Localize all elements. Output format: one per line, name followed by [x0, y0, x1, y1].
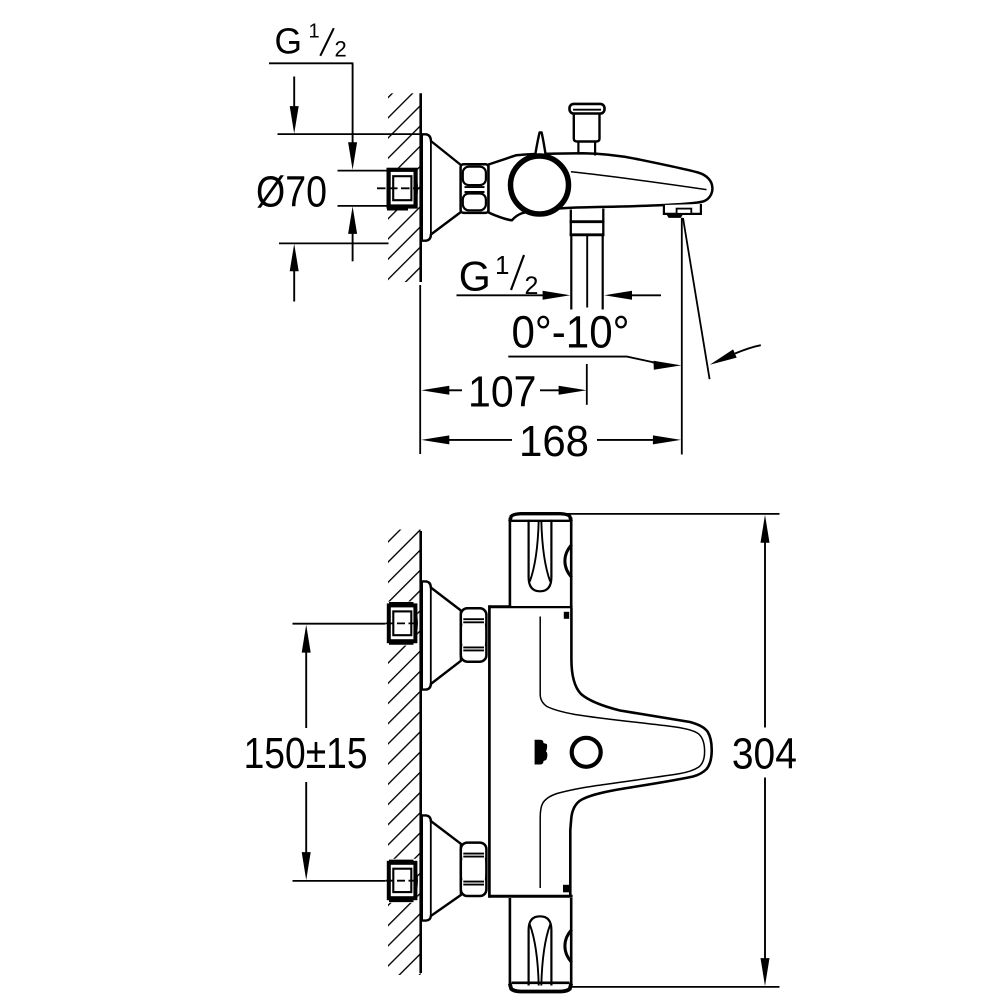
svg-text:1: 1: [309, 21, 320, 43]
svg-text:107: 107: [468, 367, 537, 416]
diverter knob body (top view): [574, 114, 600, 142]
lever pointer spike (top view): [535, 132, 546, 158]
upper knob cylinder (bottom view): [510, 514, 571, 606]
curved arrow at swivel line: [735, 345, 761, 353]
wall surface line (top view): [419, 93, 422, 282]
upper knob side dimple (bottom view): [565, 545, 572, 578]
upper escutcheon (bottom view): [422, 581, 461, 689]
centerline (top view union): [377, 187, 421, 189]
body bottom edge (bottom view): [489, 895, 572, 898]
upper knob grip (bottom view): [529, 520, 552, 592]
body left edge (bottom view): [488, 605, 491, 897]
diverter stem (top view): [577, 141, 579, 155]
svg-text:1: 1: [495, 250, 509, 280]
upper hex nut (bottom view): [461, 608, 487, 661]
swivel range lines: [681, 218, 683, 455]
svg-text:304: 304: [732, 729, 797, 778]
wall extension line (below top view): [419, 285, 421, 454]
label G 1/2 (top left): [269, 20, 353, 63]
304 extension lines: [556, 513, 780, 515]
shower outlet pipe G1/2 (top view): [570, 236, 572, 310]
Ø70 up arrow: [290, 244, 299, 272]
spout outlet lip (black): [666, 214, 683, 218]
centerline upper (bottom view): [386, 622, 422, 624]
0-10 leader with arrow: [508, 357, 658, 364]
front circle (bottom view): [572, 738, 601, 767]
svg-text:0°-10°: 0°-10°: [512, 306, 630, 357]
lower escutcheon (bottom view): [422, 815, 461, 920]
lower hex nut (bottom view): [461, 843, 487, 896]
wall surface line (bottom view): [419, 531, 422, 973]
body + spout silhouette fill (bottom view): [489, 607, 711, 897]
G1/2 extension lines (top view): [338, 170, 387, 172]
107 dimension: [586, 364, 588, 405]
escutcheon plate edge (top view): [430, 140, 432, 236]
small tick bottom (bottom view): [563, 885, 569, 893]
small tick top (bottom view): [564, 612, 569, 619]
shower outlet collar (top view): [570, 210, 572, 236]
label G 1/2 (middle): [459, 250, 539, 300]
150±15 extension lines: [293, 623, 386, 625]
black D mark (bottom view): [535, 740, 548, 765]
150±15 dimension line + arrows: [302, 625, 311, 653]
svg-text:168: 168: [519, 417, 589, 466]
G1/2 dim arrows at shower pipe: [457, 294, 546, 296]
svg-text:150±15: 150±15: [244, 729, 368, 778]
upper union square (bottom view): [387, 602, 418, 646]
Ø70 down arrow: [293, 77, 295, 109]
wall hatching (top view): [388, 93, 421, 282]
lower knob cylinder (bottom view): [510, 898, 571, 992]
diverter knob cap (top view): [570, 104, 605, 114]
svg-text:2: 2: [335, 37, 347, 62]
lower knob grip (bottom view): [529, 916, 552, 985]
spout outlet fitting (top view): [664, 204, 701, 214]
Ø70 extension lines: [278, 133, 422, 135]
lower union square (bottom view): [387, 859, 418, 903]
body highlight line (top view): [571, 172, 707, 190]
escutcheon (top view): [422, 134, 461, 240]
lower escutcheon plate edge: [430, 819, 432, 917]
svg-text:Ø70: Ø70: [256, 167, 327, 216]
G1/2 up arrow (top view): [348, 206, 357, 234]
svg-text:G: G: [275, 20, 303, 61]
upper escutcheon plate edge: [430, 586, 432, 686]
centerline lower (bottom view): [386, 880, 422, 882]
thermostat knob circle (top view): [511, 156, 569, 214]
body top edge (bottom view): [489, 605, 572, 608]
lower knob side dimple (bottom view): [565, 930, 572, 963]
168 dimension: [421, 435, 449, 444]
spout wing outline (bottom view): [570, 608, 711, 895]
hex nut (top view): [461, 164, 489, 213]
spout inner contour (bottom view): [540, 617, 704, 889]
concealed union square (top view): [387, 168, 418, 209]
svg-text:G: G: [459, 253, 491, 300]
304 dimension line + arrows: [761, 515, 770, 543]
G1/2 leader + down arrow (top view): [352, 63, 354, 145]
faucet body (top view, side profile): [489, 153, 713, 220]
wall hatching (bottom view): [388, 530, 421, 976]
